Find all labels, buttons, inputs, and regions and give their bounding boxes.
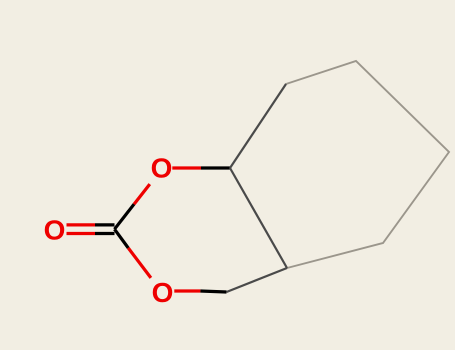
svg-text:O: O [152,277,174,308]
svg-text:O: O [44,214,66,245]
svg-text:O: O [151,153,173,184]
